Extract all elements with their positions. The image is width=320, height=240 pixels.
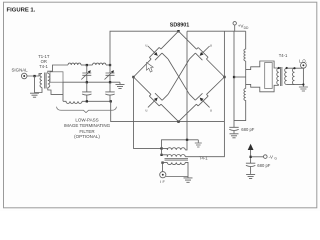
wire T3 left riser bbox=[162, 140, 199, 149]
node T2 primary top bbox=[278, 67, 280, 69]
transistor Q1 gate lead to X bbox=[162, 53, 168, 59]
svg-text:LOW-PASS: LOW-PASS bbox=[75, 117, 98, 122]
capacitor C2 (shunt) bbox=[105, 82, 114, 101]
svg-text:FIGURE 1.: FIGURE 1. bbox=[7, 8, 36, 14]
svg-text:u: u bbox=[146, 109, 148, 113]
ground (gate bias) bbox=[246, 174, 255, 178]
IF transformer T3 feed node left bbox=[160, 147, 162, 149]
wire secondary right to ground bbox=[166, 162, 188, 177]
terminal -VG bbox=[264, 155, 268, 159]
ground (IF port) bbox=[184, 178, 193, 182]
svg-text:680 pF: 680 pF bbox=[257, 163, 270, 168]
node -VG junction bbox=[250, 156, 252, 158]
arrow to gate bias (up) bbox=[248, 144, 254, 150]
wire choke tap upper staircase bbox=[246, 61, 279, 70]
transistor Q3 lower-left (edge, channel, stubs) bbox=[134, 77, 179, 122]
svg-text:T4-1: T4-1 bbox=[279, 53, 288, 58]
transformer T2 core bbox=[281, 67, 282, 86]
wire gate cross-connection X diag 1 bbox=[168, 59, 189, 94]
wire secondary top to filter top rail bbox=[48, 65, 68, 74]
transformer T1 primary winding bbox=[40, 74, 42, 88]
inductor L1 (top rail) bbox=[68, 63, 81, 65]
node ring left corner bbox=[132, 76, 134, 78]
node ring top corner bbox=[177, 30, 179, 32]
trimmer capacitor CT2 bbox=[105, 65, 115, 82]
filter underbrace bbox=[57, 107, 117, 113]
ground (filter mid rail) bbox=[116, 82, 125, 88]
node bottom rail B bbox=[110, 100, 112, 102]
middle rail (filter ground bus) bbox=[63, 81, 120, 83]
wire VDD bypass line down bbox=[233, 31, 235, 127]
transistor Q4 gate bar bbox=[195, 93, 202, 100]
node L4 top bbox=[293, 67, 295, 69]
transistor Q3 gate bar bbox=[155, 93, 162, 100]
wire bottom rail drop to ring bottom feed bbox=[111, 101, 225, 121]
transistor Q4 gate lead to X bbox=[189, 94, 195, 100]
inductor LO-choke upper half bbox=[244, 31, 246, 61]
svg-text:I: I bbox=[160, 179, 161, 184]
wire ring left corner down to IF transformer bbox=[134, 77, 162, 148]
node T3 primary row2 left bbox=[160, 154, 162, 156]
node ring right corner bbox=[223, 76, 225, 78]
wire T2 secondary top to L4 bbox=[287, 67, 304, 69]
wire bottom rail bbox=[82, 100, 111, 102]
wire secondary bottom to filter bottom rail bbox=[48, 82, 63, 101]
trimmer capacitor CT1 bbox=[81, 65, 91, 82]
routing box inner bbox=[265, 63, 273, 89]
transistor Q3 substrate lead and arrow bbox=[148, 100, 155, 107]
inductor L3 (bottom rail) bbox=[63, 101, 82, 103]
svg-text:680 pF: 680 pF bbox=[241, 127, 254, 132]
node mid rail A bbox=[86, 81, 88, 83]
wire T3 top ground stub bbox=[197, 140, 199, 143]
node top rail B bbox=[109, 64, 111, 66]
wire top rail to riser bbox=[106, 64, 110, 66]
transformer T1 secondary winding bbox=[48, 74, 50, 88]
svg-text:u: u bbox=[210, 43, 212, 47]
wire T3 row1 right to top node bbox=[185, 140, 187, 150]
transformer T1 label T1-1T OR T4-1 bbox=[38, 54, 50, 69]
ground (VDD bypass) bbox=[230, 134, 239, 138]
node T2 secondary top bbox=[286, 67, 288, 69]
transistor Q2 gate lead to X bbox=[189, 53, 195, 59]
terminal +VDD bbox=[233, 22, 236, 25]
transformer T3 primary winding row 1 bbox=[167, 148, 185, 150]
svg-text:T4-1: T4-1 bbox=[199, 156, 208, 161]
wire signal to T1 primary bbox=[27, 74, 42, 77]
wire gate bus top to VDD rail bbox=[187, 30, 246, 32]
connector J3 IF output bbox=[160, 172, 166, 178]
ground (signal input) bbox=[30, 93, 39, 97]
node LO ground junction bbox=[302, 83, 304, 85]
wire ring right corner line bbox=[185, 31, 224, 157]
transformer T3 primary winding row 2 bbox=[167, 155, 185, 157]
svg-text:SIGNAL: SIGNAL bbox=[12, 67, 29, 72]
svg-text:-V: -V bbox=[269, 154, 273, 159]
transistor Q3 gate lead to X bbox=[162, 94, 168, 100]
node top rail A bbox=[86, 64, 88, 66]
wire choke middle bbox=[245, 61, 247, 89]
wire -VG stem bbox=[250, 150, 252, 163]
wire -VG to terminal bbox=[251, 156, 264, 158]
wire T3 primary left bus bbox=[162, 148, 168, 156]
hollow cursor arrow (ring left) bbox=[147, 63, 154, 73]
transformer T2 primary winding bbox=[277, 68, 279, 84]
svg-text:u: u bbox=[146, 43, 148, 47]
capacitor C3 680pF (VDD bypass) bbox=[229, 127, 238, 133]
svg-text:(OPTIONAL): (OPTIONAL) bbox=[74, 134, 100, 139]
capacitor C1 (shunt) bbox=[82, 82, 91, 101]
node T3 top right bbox=[186, 139, 188, 141]
node mid rail B bbox=[109, 81, 111, 83]
svg-text:SD8901: SD8901 bbox=[170, 22, 190, 28]
transformer T2 secondary winding bbox=[285, 68, 287, 84]
connector J1 SIGNAL input bbox=[12, 67, 29, 78]
transformer T1 core bbox=[45, 73, 46, 89]
filter caption bbox=[64, 117, 111, 139]
svg-text:DD: DD bbox=[244, 26, 249, 30]
node VDD / choke center tap bbox=[233, 76, 235, 78]
wire gate bus vertical bbox=[186, 31, 188, 140]
transistor Q1 substrate lead and arrow bbox=[148, 46, 155, 53]
ground (L.O. port) bbox=[299, 87, 308, 91]
wire T2/L4 bottoms to ground bbox=[287, 68, 304, 86]
node T3 secondary left bbox=[161, 162, 163, 164]
wire choke tap lower staircase bbox=[246, 84, 279, 91]
svg-text:FILTER: FILTER bbox=[79, 129, 95, 134]
transistor Q1 upper-left (edge, channel, stubs) bbox=[134, 31, 179, 77]
wire top rail between L1 and L2 bbox=[81, 64, 93, 66]
svg-text:T4-1: T4-1 bbox=[39, 64, 48, 69]
wire center tap bbox=[234, 76, 246, 78]
node ring bottom corner bbox=[177, 120, 179, 122]
inductor LO-choke lower half bbox=[234, 89, 246, 121]
transistor Q2 substrate lead and arrow bbox=[202, 46, 209, 53]
wire gate cross-connection X diag 2 bbox=[168, 59, 189, 94]
inductor L4 (LO shunt) bbox=[293, 68, 295, 84]
transistor Q2 gate bar bbox=[195, 53, 202, 60]
svg-text:u: u bbox=[210, 109, 212, 113]
transistor Q1 gate bar bbox=[155, 53, 162, 60]
wire junction down to ground bbox=[35, 76, 43, 93]
inductor L2 (top rail) bbox=[93, 63, 106, 65]
transformer T3 core bbox=[165, 159, 189, 161]
wire secondary left to IF connector bbox=[163, 162, 168, 171]
transistor Q4 substrate lead and arrow bbox=[202, 100, 209, 107]
node bottom rail A bbox=[86, 100, 88, 102]
transistor Q4 lower-right (edge, channel, stubs) bbox=[179, 77, 225, 122]
ground (T3 top) bbox=[195, 143, 202, 147]
transformer T3 secondary winding bbox=[167, 162, 185, 164]
capacitor C4 680pF (gate bias bypass) bbox=[246, 163, 255, 174]
transformer T1 secondary shield box bbox=[50, 72, 63, 82]
svg-text:IMAGE TERMINATING: IMAGE TERMINATING bbox=[64, 123, 111, 128]
wire riser to RF feed rail bbox=[110, 31, 179, 65]
transistor Q2 upper-right (edge, channel, stubs) bbox=[179, 31, 225, 77]
node signal/ground junction bbox=[33, 75, 35, 77]
